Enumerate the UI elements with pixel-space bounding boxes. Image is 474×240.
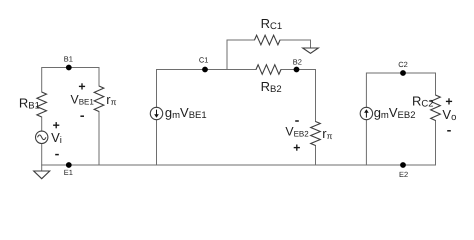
- resistor rpi1: [94, 86, 104, 112]
- wire RC1 to ground: [280, 40, 311, 48]
- label VBE1 minus: [80, 115, 84, 117]
- label Vo minus: [447, 130, 451, 132]
- ground RC1: [303, 48, 319, 53]
- wire right loop top: [366, 73, 435, 107]
- resistor RC2: [431, 95, 441, 121]
- node B1: [66, 65, 72, 71]
- label Vi plus: [53, 122, 59, 128]
- wire gmVEB2 to rail: [365, 120, 367, 165]
- ground left: [34, 171, 50, 179]
- label Vo plus: [446, 98, 452, 104]
- label VEB2 plus: [294, 145, 300, 151]
- svg-text:C2: C2: [398, 60, 408, 69]
- svg-text:B2: B2: [293, 57, 302, 66]
- wire gmVBE1 to rail: [156, 120, 158, 165]
- resistor rpi2: [311, 122, 321, 146]
- wire RC2 to rail: [435, 121, 437, 166]
- arrow gmVEB2 (up): [364, 109, 369, 117]
- resistor RB2: [256, 65, 281, 75]
- node E1: [66, 162, 72, 168]
- node B2: [294, 67, 300, 73]
- wire bottom rail: [42, 164, 436, 166]
- resistor RB1: [37, 92, 47, 117]
- wire Vi to ground: [41, 144, 43, 172]
- svg-text:B1: B1: [64, 55, 73, 64]
- wire RB2 to rpi2: [281, 70, 316, 122]
- svg-text:C1: C1: [199, 56, 209, 65]
- wire jog to RC1: [227, 40, 255, 70]
- node C2: [400, 70, 406, 76]
- node E2: [400, 162, 406, 168]
- node C1: [202, 67, 208, 73]
- source Vi: [36, 131, 48, 143]
- label VEB2 minus: [295, 120, 299, 122]
- wire left loop top: [42, 68, 99, 93]
- svg-text:E2: E2: [399, 170, 408, 179]
- label Vi minus: [55, 154, 59, 156]
- source gmVBE1: [150, 107, 162, 119]
- wire RB1 to Vi: [41, 117, 43, 131]
- arrow gmVBE1 (down): [154, 110, 159, 118]
- wire rpi1 to rail: [98, 112, 100, 166]
- wire middle top: [157, 70, 257, 108]
- source gmVEB2: [360, 107, 372, 119]
- wire rpi2 to rail: [315, 146, 317, 166]
- resistor RC1: [255, 35, 281, 45]
- svg-text:E1: E1: [64, 168, 73, 177]
- label VBE1 plus: [79, 83, 85, 89]
